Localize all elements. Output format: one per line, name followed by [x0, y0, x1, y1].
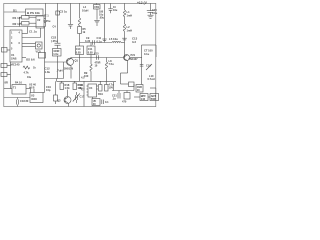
wire	[20, 16, 22, 18]
wire	[79, 58, 81, 82]
wire	[30, 89, 32, 93]
node label left	[5, 81, 8, 85]
svg-text:2: 2	[11, 37, 13, 40]
connector J2	[1, 73, 11, 77]
inductor L10 label	[148, 74, 155, 81]
IC U3	[30, 93, 43, 103]
wire	[40, 28, 42, 38]
svg-text:MC145: MC145	[11, 63, 20, 67]
svg-text:100: 100	[84, 74, 89, 78]
transistor Q2	[124, 53, 139, 73]
wire vertical bus F	[110, 3, 112, 8]
box F3	[87, 43, 95, 58]
capacitor C12 label	[45, 67, 51, 74]
svg-text:3: 3	[11, 42, 13, 45]
svg-text:B PS 10k: B PS 10k	[27, 11, 40, 15]
border frame (sheet)	[4, 3, 156, 106]
wire	[141, 45, 143, 85]
box C9R	[136, 85, 143, 93]
crystal X2	[46, 81, 58, 104]
box filter F1	[53, 49, 62, 57]
svg-text:10V: 10V	[109, 86, 114, 90]
wire	[130, 57, 142, 59]
inductor L5	[109, 37, 125, 43]
box D2	[56, 11, 60, 15]
wire	[83, 81, 85, 106]
wire	[20, 22, 22, 24]
node C4 label	[53, 26, 57, 29]
node label U3 top	[29, 83, 36, 90]
inductor L2	[122, 24, 132, 58]
svg-text:+12 (V: +12 (V	[137, 1, 148, 5]
svg-text:OS 9.6: OS 9.6	[26, 58, 35, 62]
resistor R5	[78, 27, 87, 47]
svg-text:PA 10: PA 10	[15, 81, 22, 85]
svg-text:7.5u: 7.5u	[109, 62, 115, 66]
node D1 label	[13, 9, 17, 13]
svg-text:C10: C10	[76, 47, 81, 51]
IC U4	[87, 84, 99, 97]
IC U1	[10, 30, 22, 67]
box CB1	[94, 3, 101, 9]
svg-text:4: 4	[19, 32, 21, 35]
svg-text:1: 1	[11, 32, 13, 35]
svg-text:1.0u: 1.0u	[53, 52, 59, 56]
svg-text:10p: 10p	[46, 88, 51, 92]
capacitor C17 trimmer	[73, 92, 85, 103]
inductor L3	[90, 58, 92, 82]
wire	[134, 96, 140, 98]
svg-text:C11: C11	[88, 47, 93, 51]
svg-text:1k: 1k	[83, 31, 86, 34]
wire	[150, 87, 156, 89]
wire	[4, 88, 12, 90]
wire	[44, 79, 46, 93]
transistor Q1	[64, 58, 79, 79]
node OSC label	[26, 58, 35, 62]
svg-text:0.05: 0.05	[76, 50, 82, 54]
capacitor C14 label	[79, 84, 84, 90]
wire	[22, 37, 41, 39]
svg-text:10u: 10u	[79, 87, 84, 90]
power +12V	[137, 1, 148, 5]
inductor L1	[123, 3, 132, 24]
wire	[4, 26, 46, 28]
wire bottom bus2	[112, 90, 134, 92]
wire	[155, 88, 157, 94]
capacitor C22	[55, 43, 61, 48]
box RFC1	[129, 82, 135, 87]
wire	[19, 17, 21, 26]
resistor R2	[13, 22, 37, 27]
svg-text:.7uH: .7uH	[57, 69, 63, 73]
svg-text:C15: C15	[94, 52, 99, 55]
capacitor C19b	[102, 100, 109, 105]
svg-text:1k: 1k	[33, 67, 36, 70]
resistor R20	[105, 81, 109, 91]
svg-text:CB1: CB1	[94, 6, 100, 9]
connector J1	[1, 64, 11, 68]
svg-text:T1: T1	[13, 86, 17, 90]
svg-text:P21: P21	[131, 53, 136, 57]
capacitor C9	[85, 36, 102, 45]
IC U2	[36, 16, 46, 28]
svg-text:SAB: SAB	[11, 57, 17, 61]
capacitor C16	[140, 64, 152, 71]
svg-text:8R: 8R	[5, 81, 8, 85]
svg-text:0.1: 0.1	[105, 100, 109, 104]
transistor Q3	[57, 90, 71, 107]
capacitor C2	[22, 42, 42, 54]
node label 4.7u	[109, 83, 115, 90]
node label T1 top	[15, 81, 22, 85]
svg-text:1mH: 1mH	[127, 13, 133, 17]
svg-text:10uH: 10uH	[82, 8, 88, 12]
svg-text:5: 5	[11, 48, 13, 51]
wire	[10, 62, 12, 89]
svg-text:50R: 50R	[151, 97, 156, 101]
wire vertical bus B	[44, 27, 46, 79]
svg-text:10u: 10u	[27, 76, 32, 79]
svg-text:146: 146	[141, 97, 146, 101]
wire	[80, 42, 113, 44]
svg-text:C1 .1u: C1 .1u	[29, 30, 37, 34]
wire	[22, 33, 28, 35]
capacitor C3 label	[60, 10, 68, 14]
box OUT1	[140, 94, 148, 102]
box PS module	[26, 9, 44, 16]
svg-text:47.1: 47.1	[44, 14, 50, 18]
wire	[43, 92, 45, 94]
svg-text:.1u: .1u	[112, 97, 116, 101]
svg-text:R19: R19	[98, 92, 103, 96]
resistor R19	[98, 81, 103, 96]
box ref osc	[39, 53, 46, 59]
capacitor C4 label	[44, 14, 51, 23]
node label 10u	[113, 6, 118, 12]
capacitor C15	[94, 52, 101, 67]
svg-text:L5 10u: L5 10u	[109, 37, 118, 41]
capacitor C13 label	[132, 37, 138, 44]
svg-text:C18 80: C18 80	[20, 99, 29, 103]
node label mid-right	[144, 49, 153, 56]
wire	[56, 79, 58, 82]
svg-text:0.7uH: 0.7uH	[148, 77, 155, 81]
inductor L6 label	[57, 69, 63, 73]
ground	[148, 15, 154, 18]
transformer T1	[12, 85, 26, 95]
wire	[133, 84, 135, 91]
wire vertical bus D	[63, 62, 65, 79]
svg-text:3.3: 3.3	[132, 40, 136, 44]
svg-text:Q1: Q1	[75, 59, 79, 63]
svg-text:1mH: 1mH	[127, 28, 133, 32]
svg-text:.05u: .05u	[99, 17, 104, 20]
wire	[121, 72, 128, 74]
svg-text:2N5179: 2N5179	[64, 66, 74, 70]
capacitor C7	[94, 9, 104, 26]
resistor R16	[73, 81, 83, 90]
wire	[4, 11, 26, 13]
box F2	[76, 46, 84, 58]
wire	[155, 45, 157, 57]
svg-text:D1: D1	[13, 9, 17, 13]
wire	[148, 96, 150, 98]
svg-text:0.1u: 0.1u	[97, 39, 103, 43]
box OUT2	[150, 94, 159, 102]
svg-text:0.05u: 0.05u	[44, 19, 51, 23]
resistor R1	[13, 16, 37, 21]
capacitor C21	[112, 91, 120, 101]
svg-text:VCO: VCO	[36, 51, 41, 54]
wire	[26, 88, 31, 90]
resistor R18	[60, 81, 70, 90]
inductor L8	[105, 58, 114, 82]
svg-text:10u: 10u	[113, 9, 118, 12]
svg-text:U1: U1	[11, 53, 15, 57]
svg-text:U4: U4	[89, 86, 93, 90]
svg-text:C3 1u: C3 1u	[60, 10, 68, 14]
capacitor C5	[68, 3, 73, 29]
svg-text:0.1u: 0.1u	[152, 11, 158, 15]
wire	[45, 78, 64, 80]
wire vertical bus C	[57, 3, 59, 43]
svg-text:1.0u: 1.0u	[45, 70, 51, 74]
wire collector bus	[71, 57, 124, 59]
svg-text:470: 470	[122, 100, 127, 104]
svg-text:U2: U2	[37, 18, 41, 22]
capacitor C22 label	[51, 36, 58, 43]
wire vertical bus E	[104, 3, 106, 42]
wire bottom bus1	[57, 80, 117, 82]
svg-text:4.7k: 4.7k	[24, 71, 30, 75]
box U5	[92, 97, 100, 106]
box RFC2	[122, 91, 130, 104]
svg-text:10: 10	[95, 65, 98, 68]
wire	[113, 82, 115, 91]
node label R9	[84, 71, 89, 78]
svg-text:U3: U3	[31, 94, 35, 98]
inductor L4	[78, 3, 88, 26]
svg-text:6: 6	[19, 42, 21, 45]
capacitor C18	[17, 98, 29, 107]
svg-text:(.05u: (.05u	[51, 39, 58, 43]
capacitor C1 label	[29, 30, 37, 34]
crystal X1	[2, 48, 11, 53]
wire	[142, 44, 157, 46]
wire	[45, 61, 68, 63]
svg-text:0.1u: 0.1u	[144, 52, 150, 56]
wire	[120, 73, 122, 84]
svg-text:3-30: 3-30	[85, 39, 91, 43]
svg-text:0.05: 0.05	[88, 50, 94, 54]
wire	[33, 89, 35, 93]
svg-text:4046: 4046	[31, 97, 37, 101]
node pin labels U1	[11, 32, 21, 51]
resistor R3	[23, 66, 36, 79]
svg-text:L4: L4	[83, 5, 87, 9]
wire	[121, 83, 129, 85]
wire vertical bus A	[45, 3, 47, 26]
capacitor C20	[147, 3, 158, 15]
wire	[27, 27, 29, 34]
wire	[57, 56, 59, 79]
wire	[22, 57, 26, 59]
node label CR	[81, 76, 85, 92]
svg-text:C4: C4	[53, 26, 57, 29]
wire	[4, 97, 30, 99]
